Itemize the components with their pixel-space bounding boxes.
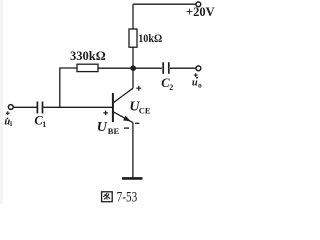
capacitor C2 [163,62,169,73]
minus UCE [135,122,139,124]
svg-text:i: i [10,119,12,128]
plus at input [6,111,10,115]
svg-text:U: U [97,120,108,135]
wire emitter down [132,122,134,178]
minus UBE [124,127,129,129]
svg-text:CE: CE [139,106,151,116]
terminal output [196,66,201,71]
svg-text:2: 2 [169,83,173,92]
wire 330k left drop [60,68,77,107]
svg-text:330kΩ: 330kΩ [70,49,106,63]
terminal input [8,105,13,110]
resistor R1 10k [129,29,137,47]
wire collector upper [132,4,134,29]
wire C2 to output [170,67,196,69]
svg-text:7-53: 7-53 [117,190,138,205]
svg-text:u: u [192,78,198,89]
ground [122,177,143,180]
transistor Q1 base bar [112,93,114,122]
node A junction dot [130,65,136,71]
plus at output [194,73,198,77]
plus UBE [103,111,108,116]
resistor R2 330k [77,64,98,71]
scan left-edge band [0,0,3,204]
svg-text:1: 1 [42,120,46,129]
caption fig 7-53 glyph tu [102,192,113,202]
wire C1 to base [43,106,112,108]
plus UCE [136,86,141,91]
transistor Q1 emitter arrow [124,116,130,121]
wire node to C2 [133,67,162,69]
svg-text:10kΩ: 10kΩ [138,33,162,45]
transistor Q1 collector lead [113,88,133,102]
transistor Q1 emitter lead [113,112,132,123]
wire top supply [133,3,196,5]
svg-text:+20V: +20V [186,5,215,19]
svg-text:o: o [198,80,202,89]
wire base input [13,106,36,108]
capacitor C1 [37,102,42,114]
wire resistor to node [132,47,134,88]
svg-text:BE: BE [108,126,120,136]
wire 330k to node [98,67,133,69]
terminal +20V [196,2,201,7]
